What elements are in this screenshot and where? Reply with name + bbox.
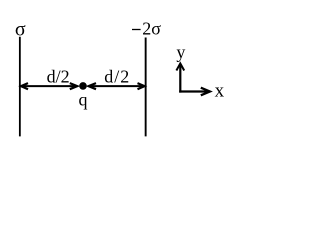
svg-text:y: y [176, 42, 185, 62]
arrowhead barbs pointing left at plate [21, 83, 28, 89]
dimension wire left (plate to charge) [21, 85, 77, 87]
svg-text:2σ: 2σ [142, 18, 161, 38]
x axis line [179, 90, 209, 92]
svg-text:d/2: d/2 [47, 66, 70, 86]
svg-text:d/2: d/2 [104, 66, 130, 86]
svg-text:x: x [215, 80, 225, 101]
arrowhead barbs pointing right at plate [138, 83, 145, 89]
left charged sheet (plate) [19, 37, 21, 137]
svg-text:σ: σ [15, 18, 26, 40]
x axis arrowhead barbs [201, 88, 210, 96]
dimension wire right (charge to plate) [89, 85, 145, 87]
svg-text:q: q [79, 89, 88, 109]
y axis line [179, 64, 181, 93]
arrowhead barbs pointing left at charge [89, 83, 97, 89]
label -2sigma : minus stroke [132, 29, 141, 31]
y axis arrowhead barbs [176, 63, 184, 70]
arrowhead barbs pointing right at charge [70, 83, 78, 89]
point charge dot [79, 82, 87, 90]
right charged sheet (plate) [145, 38, 147, 137]
